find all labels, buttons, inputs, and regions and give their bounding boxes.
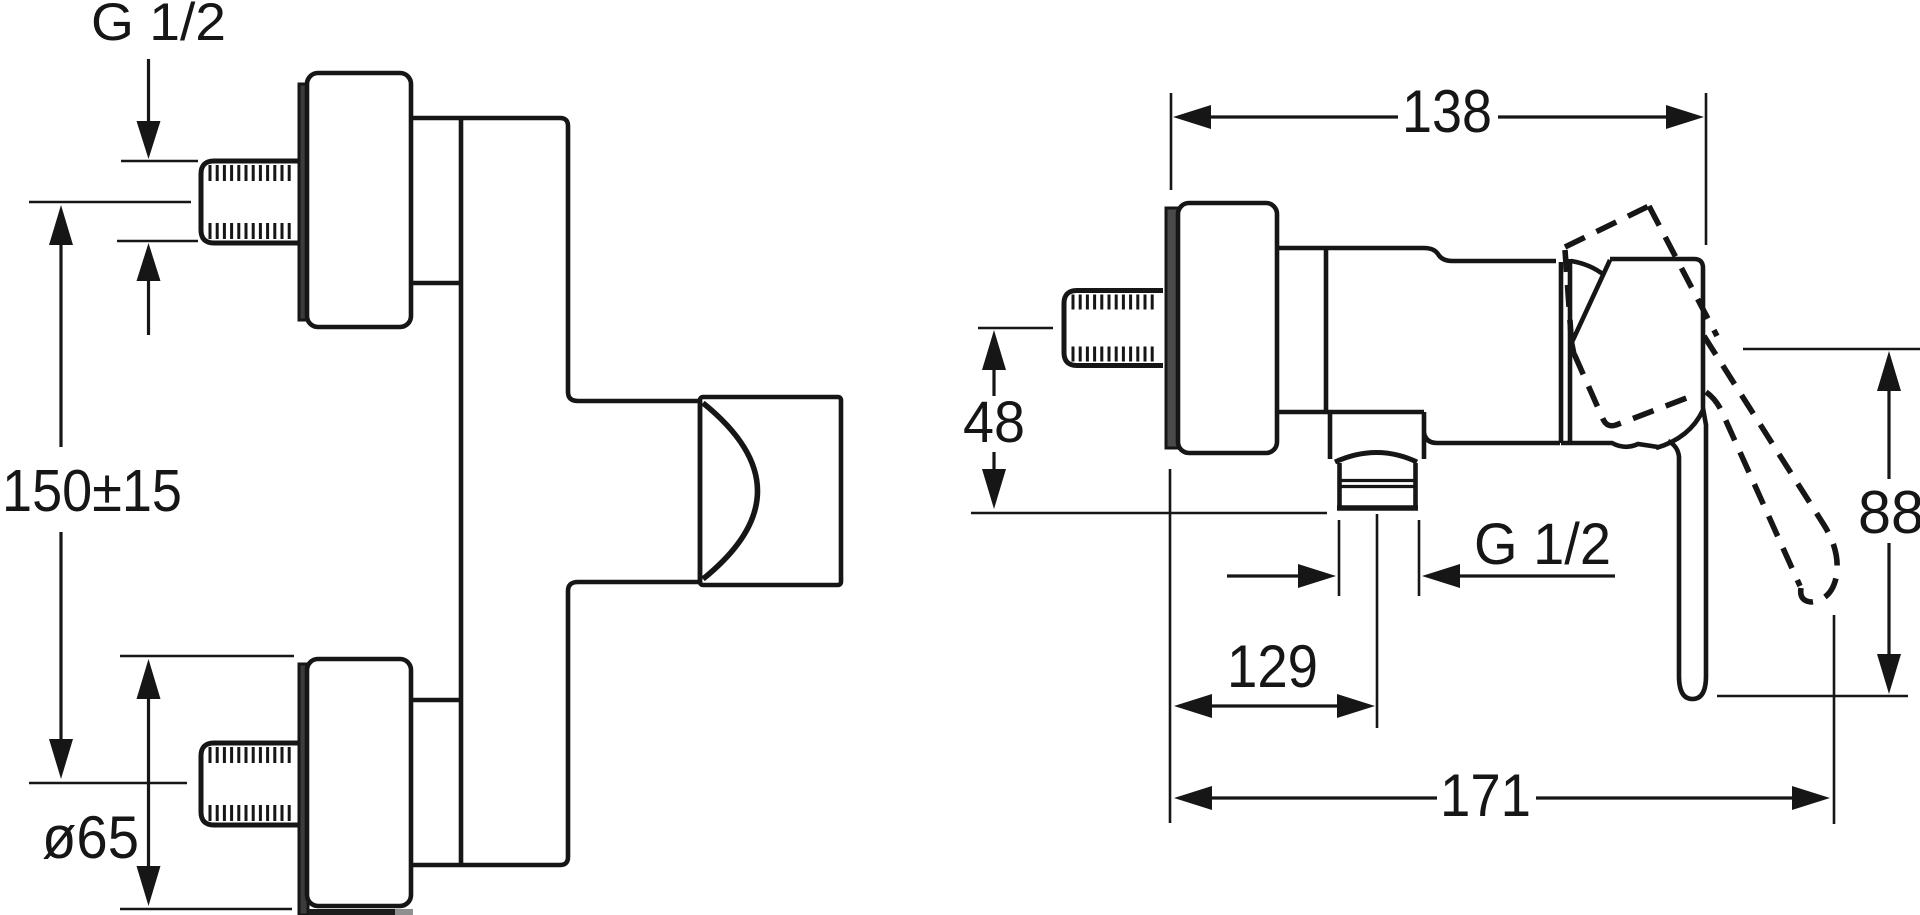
svg-text:G 1/2: G 1/2 (1474, 512, 1611, 577)
dimension 88 vertical line with arrows (1877, 351, 1901, 694)
dimension arrow up to thread bottom edge (137, 243, 161, 335)
dimension 171 line with arrows (1174, 786, 1830, 810)
extension tick: 88 top (valve centerline) (1743, 348, 1920, 351)
extension tick: G 1/2 right (1418, 520, 1421, 596)
dark cut-off bar under bottom escutcheon (309, 909, 395, 915)
bottom escutcheon cap (307, 659, 411, 906)
outlet housing (middle, protruding right) (578, 401, 700, 582)
svg-text:ø65: ø65 (42, 804, 139, 871)
extension tick: thread top edge (121, 160, 198, 163)
right drawing threaded pipe (1064, 291, 1163, 366)
outlet nut centerline / 129 extension (1376, 514, 1379, 728)
extension tick: 171 right (lever tip) (1833, 615, 1836, 824)
outlet cap curved face arc (703, 403, 758, 579)
top escutcheon back flange (299, 84, 308, 320)
faucet body column outline (411, 118, 578, 865)
extension tick: bottom escutcheon top (ø65) (120, 655, 294, 658)
reference line: outlet level (48 bottom) (971, 512, 1327, 515)
svg-text:48: 48 (963, 390, 1025, 455)
valve body section (with divider) (1277, 248, 1560, 459)
right escutcheon cap (1178, 203, 1277, 453)
svg-text:150±15: 150±15 (2, 458, 182, 524)
extension tick: bottom escutcheon bottom (ø65) (120, 908, 292, 911)
cartridge cone front edge (1568, 259, 1573, 441)
bottom neck top edge (411, 698, 461, 703)
dimension ø65 vertical line with arrows (137, 659, 161, 906)
bottom escutcheon back flange (299, 664, 308, 915)
svg-text:171: 171 (1440, 762, 1531, 829)
dimension 150±15 vertical line with arrows (49, 205, 73, 779)
right escutcheon back flange (1166, 208, 1178, 448)
reference line: bottom thread centerline (150±15 bottom) (29, 782, 187, 785)
svg-text:129: 129 (1227, 633, 1318, 700)
bottom thread hatching (210, 747, 289, 821)
dimension 138 line with arrows (1173, 105, 1704, 129)
extension tick: 138 right (cap right edge) (1705, 93, 1708, 245)
svg-text:138: 138 (1402, 78, 1492, 145)
outlet cap cylinder (700, 397, 841, 585)
svg-text:G 1/2: G 1/2 (91, 0, 226, 52)
top escutcheon cap (307, 73, 411, 327)
top inlet threaded pipe (201, 161, 300, 243)
right thread hatching (1073, 295, 1152, 362)
dimension 48 vertical line with arrows (982, 330, 1006, 509)
extension tick: 48 top (thread centerline) (978, 327, 1053, 330)
outlet nut below body (1330, 412, 1418, 508)
extension tick: thread bottom edge (117, 240, 198, 243)
dashed handle (raised position) outline (1565, 206, 1697, 426)
G 1/2 dimension arrows (pointing inward) (1227, 564, 1615, 588)
extension tick: G 1/2 left (1338, 520, 1341, 596)
extension tick: left wall plane (129/171) (1169, 469, 1172, 823)
handle cap (solid, tilted) with lever (1561, 259, 1706, 699)
dashed handle lever (lowered position) (1649, 206, 1837, 602)
dimension 129 line with arrows (1174, 694, 1375, 718)
reference line: top thread centerline (150±15 top) (29, 201, 191, 204)
extension tick: 138 left (escutcheon left) (1170, 93, 1173, 190)
dome curve to handle cap (1571, 261, 1604, 275)
bottom inlet threaded pipe (201, 743, 300, 825)
extension tick: 88 bottom (lever bottom) (1717, 695, 1908, 698)
top thread hatching (210, 165, 289, 239)
dimension arrow down to thread top edge (137, 59, 161, 159)
cartridge divider line (1559, 262, 1564, 443)
body column front edge (459, 118, 464, 865)
top neck bottom edge (411, 281, 461, 286)
svg-text:88: 88 (1858, 479, 1920, 546)
